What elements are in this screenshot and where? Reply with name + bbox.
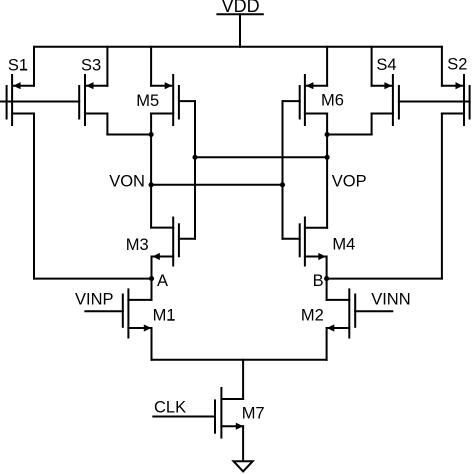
svg-text:M3: M3 — [126, 236, 149, 254]
svg-text:VON: VON — [109, 172, 145, 190]
svg-text:B: B — [313, 272, 324, 290]
svg-text:M5: M5 — [136, 92, 159, 110]
svg-text:CLK: CLK — [154, 398, 186, 416]
svg-text:S4: S4 — [376, 56, 396, 74]
svg-text:S3: S3 — [81, 56, 101, 74]
svg-text:M2: M2 — [301, 307, 324, 325]
svg-text:S2: S2 — [447, 56, 467, 74]
svg-text:M4: M4 — [332, 235, 355, 253]
svg-text:VINP: VINP — [75, 291, 114, 309]
svg-text:VDD: VDD — [222, 0, 260, 16]
svg-text:M6: M6 — [321, 92, 344, 110]
svg-text:VINN: VINN — [371, 291, 410, 309]
svg-text:M1: M1 — [153, 307, 176, 325]
svg-text:VOP: VOP — [332, 172, 367, 190]
svg-text:M7: M7 — [242, 405, 265, 423]
svg-text:A: A — [157, 272, 168, 290]
svg-text:S1: S1 — [8, 56, 28, 74]
